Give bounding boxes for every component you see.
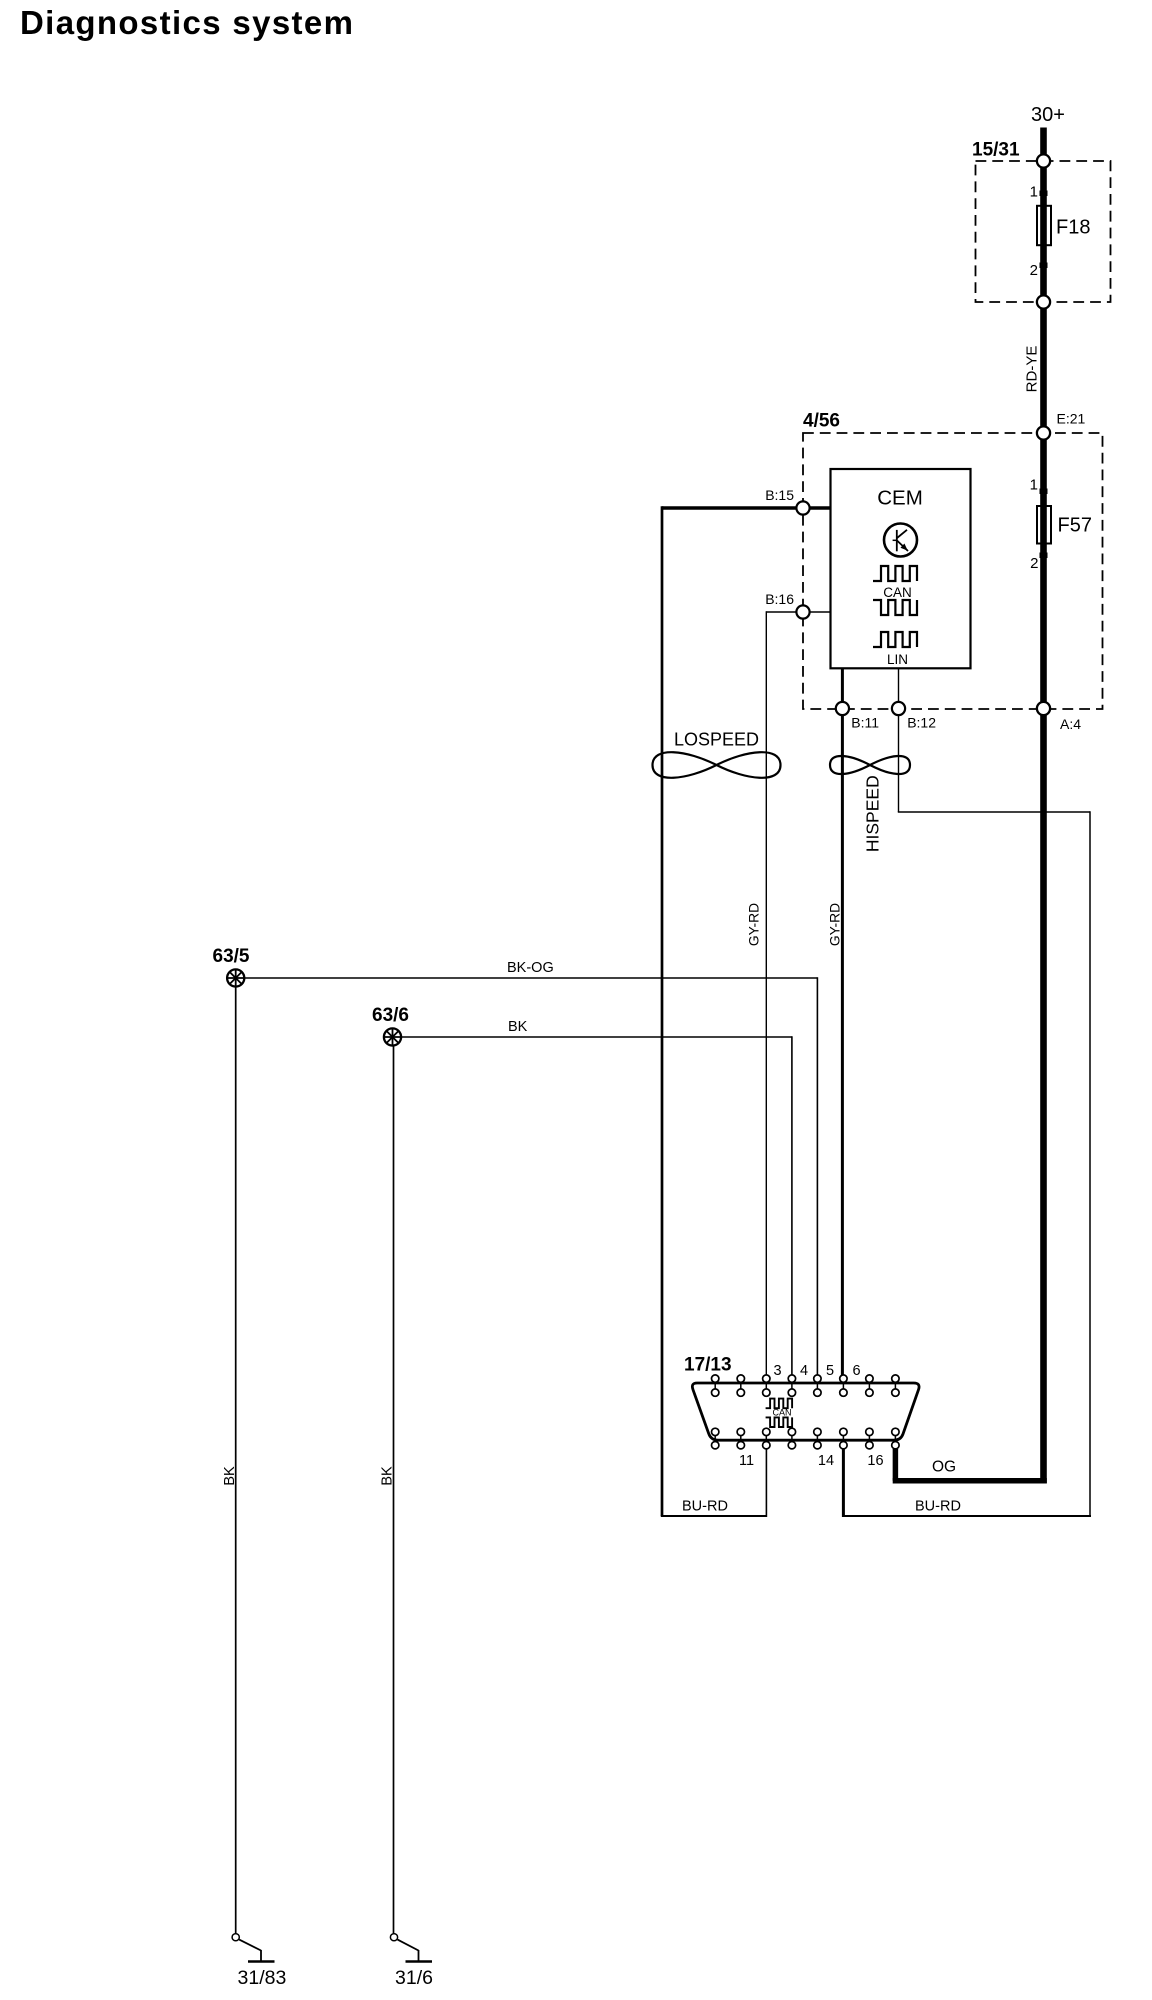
terminal B:16 — [765, 591, 809, 619]
svg-text:BK: BK — [379, 1466, 395, 1486]
svg-text:LOSPEED: LOSPEED — [674, 730, 759, 750]
wire label BU-RD (left) — [682, 1499, 728, 1515]
pin 1 of F57 — [1030, 477, 1048, 495]
svg-text:CAN: CAN — [772, 1408, 791, 1418]
connector 17/13 bottom row pins — [712, 1428, 900, 1449]
svg-text:5: 5 — [826, 1363, 834, 1379]
wire B:11 thick (CAN) down to connector pin 6 — [841, 668, 844, 1376]
K-line symbol in CEM — [884, 524, 917, 557]
svg-text:30+: 30+ — [1031, 104, 1065, 126]
connector 17/13 pin labels 11 14 16 — [739, 1453, 884, 1469]
title Diagnostics system — [20, 4, 354, 41]
LIN waveform symbol in CEM — [873, 632, 917, 667]
wire BK-OG from 63/5 to connector pin 5 — [245, 960, 817, 1376]
svg-text:63/6: 63/6 — [372, 1005, 409, 1026]
svg-text:F57: F57 — [1058, 515, 1092, 537]
svg-text:B:16: B:16 — [765, 591, 794, 607]
wire B:16 to LOSPEED right and down to pin 3 — [766, 611, 830, 1375]
mini CAN waveform symbol in connector — [766, 1399, 793, 1427]
node 30+ label — [1031, 104, 1065, 126]
terminal B:15 — [765, 487, 809, 515]
svg-text:GY-RD: GY-RD — [747, 903, 762, 946]
pin 1 of F18 — [1030, 184, 1048, 201]
svg-text:1: 1 — [1030, 184, 1038, 201]
wire B:15 thick from CEM to LOSPEED and down to pin 11 path — [661, 506, 831, 1517]
svg-text:BU-RD: BU-RD — [682, 1499, 728, 1515]
node E:21 — [1037, 411, 1086, 440]
svg-text:E:21: E:21 — [1057, 411, 1086, 427]
svg-text:OG: OG — [932, 1459, 956, 1476]
connector 17/13 top row pins — [712, 1375, 900, 1396]
connector 17/13 pin labels 3 4 5 6 — [773, 1363, 860, 1379]
wire OG thick from pin 16 to main feed — [893, 1449, 1047, 1481]
terminal circle 15/31 top — [1037, 154, 1050, 167]
svg-text:GY-RD: GY-RD — [828, 903, 843, 946]
svg-text:3: 3 — [773, 1363, 781, 1379]
svg-text:1: 1 — [1030, 477, 1038, 494]
svg-text:11: 11 — [739, 1453, 754, 1469]
CAN waveform symbol in CEM — [873, 566, 917, 615]
svg-text:A:4: A:4 — [1060, 716, 1081, 732]
terminal B:11 — [836, 702, 879, 731]
wire label BU-RD (right) — [915, 1499, 961, 1515]
svg-text:HISPEED: HISPEED — [862, 775, 882, 852]
svg-text:LIN: LIN — [887, 652, 908, 667]
fuse F57 — [1037, 506, 1092, 544]
svg-text:CAN: CAN — [883, 585, 912, 600]
svg-text:31/6: 31/6 — [395, 1967, 433, 1989]
module CEM box — [831, 469, 971, 668]
svg-text:Diagnostics system: Diagnostics system — [20, 4, 354, 41]
svg-text:BU-RD: BU-RD — [915, 1499, 961, 1515]
wire label GY-RD (right) — [828, 903, 843, 946]
svg-text:RD-YE: RD-YE — [1024, 346, 1041, 393]
svg-text:F18: F18 — [1056, 217, 1090, 239]
splice 63/5 — [213, 946, 250, 987]
svg-text:15/31: 15/31 — [972, 140, 1020, 161]
splice 63/6 — [372, 1005, 409, 1046]
ground 31/6 — [390, 1934, 433, 1989]
svg-text:BK: BK — [222, 1466, 238, 1486]
connector 17/13 pin stubs top row — [715, 1378, 895, 1393]
wire BK from 63/5 down to ground 31/83 — [222, 987, 238, 1933]
svg-text:BK: BK — [508, 1019, 528, 1035]
svg-text:4: 4 — [800, 1363, 808, 1379]
connector 17/13 pin stubs bottom row — [715, 1432, 895, 1447]
twisted pair symbol LOSPEED — [653, 730, 781, 778]
svg-text:B:11: B:11 — [851, 715, 879, 731]
connector 17/13 label — [684, 1355, 732, 1376]
svg-text:6: 6 — [852, 1363, 860, 1379]
svg-text:B:12: B:12 — [907, 715, 936, 731]
terminal circle 15/31 bottom — [1037, 295, 1050, 308]
twisted pair symbol HISPEED — [830, 756, 910, 852]
svg-text:63/5: 63/5 — [213, 946, 250, 967]
svg-text:2: 2 — [1030, 555, 1038, 572]
pin 2 of F18 — [1030, 262, 1048, 279]
svg-text:17/13: 17/13 — [684, 1355, 732, 1376]
svg-text:14: 14 — [818, 1453, 834, 1469]
svg-text:4/56: 4/56 — [803, 411, 840, 432]
wire BK from 63/6 to connector pin 4 — [402, 1019, 792, 1376]
wire B:12 (CAN) jog right and down to pin 14 — [843, 668, 1091, 1517]
wire label GY-RD (left) — [747, 903, 762, 946]
terminal B:12 — [892, 702, 936, 731]
wire label RD-YE — [1024, 346, 1041, 393]
connector 17/13 body — [692, 1383, 919, 1440]
fuse F18 — [1037, 206, 1090, 245]
wire 30+ main feed vertical — [1040, 128, 1047, 1484]
svg-text:31/83: 31/83 — [238, 1967, 287, 1989]
wire BK from 63/6 down to ground 31/6 — [379, 1046, 395, 1933]
svg-text:16: 16 — [867, 1453, 883, 1469]
pin 2 of F57 — [1030, 553, 1047, 573]
fuse holder box 15/31 (dashed) — [972, 140, 1111, 303]
svg-text:BK-OG: BK-OG — [507, 960, 554, 976]
node A:4 — [1037, 702, 1081, 732]
svg-text:CEM: CEM — [877, 487, 923, 510]
control module box 4/56 (dashed) — [803, 411, 1103, 710]
svg-text:B:15: B:15 — [765, 487, 794, 503]
svg-text:2: 2 — [1030, 262, 1038, 279]
ground 31/83 — [232, 1934, 286, 1989]
